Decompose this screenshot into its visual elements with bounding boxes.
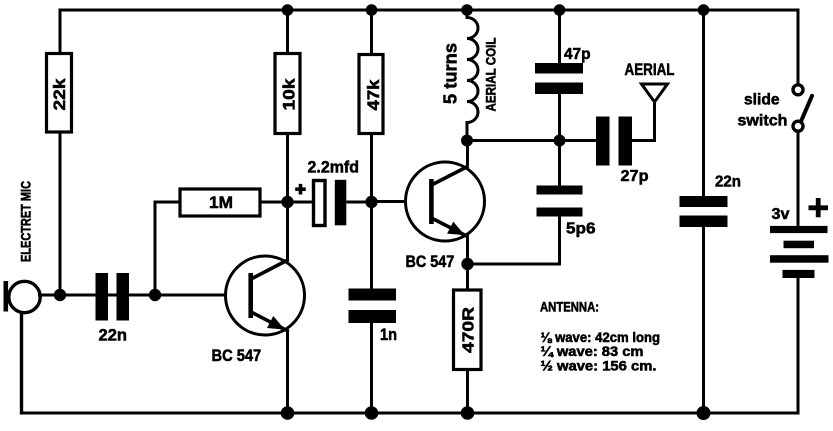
node dot top rail 22n branch [698,4,710,16]
node dot ground rail 22n [697,406,711,420]
wire node to 2.2mfd left plate [288,201,314,204]
wire Q2 collector up to coil [466,141,469,167]
wire 47p bottom to node [558,94,561,141]
capacitor 22n (mic coupling) [96,273,130,345]
svg-text:ANTENNA:: ANTENNA: [540,300,599,315]
wire 27p to antenna [632,102,655,141]
node dot coil bottom [461,135,473,147]
wire bottom ground rail [20,412,800,415]
wire rail to 47p [558,10,561,63]
electret mic [4,181,41,415]
capacitor 5p6 [537,186,596,238]
svg-text:½ wave: 156 cm.: ½ wave: 156 cm. [541,359,657,374]
node dot top rail 10k [282,4,294,16]
svg-text:10k: 10k [280,78,299,111]
wire 47k bottom to node [370,134,373,203]
resistor 10k [275,54,300,134]
node dot base/1M junction [149,289,161,301]
svg-text:⅛ wave: 42cm long: ⅛ wave: 42cm long [541,330,661,345]
wire coil bottom to 27p [467,139,596,142]
wire 22n to ground rail [702,227,705,413]
svg-text:47k: 47k [364,79,383,111]
wire switch to battery [797,131,800,226]
wire node down to Q1 collector [286,202,289,260]
wire mic output line [38,294,250,297]
svg-text:AERIAL COIL: AERIAL COIL [483,37,499,111]
wire 10k bottom to node [286,134,289,203]
node dot top rail 47p [554,4,566,16]
capacitor 47p [535,46,591,94]
wire Q2 emitter down to node [466,237,469,264]
wire node to Q2 base [372,200,431,203]
svg-text:1n: 1n [380,325,397,344]
wire 1M left branch [155,202,180,297]
svg-text:27p: 27p [621,168,649,185]
svg-text:switch: switch [738,113,788,130]
resistor 470R [454,290,482,370]
capacitor 1n [349,289,398,345]
text antenna notes [540,300,660,374]
capacitor 22n (supply decoupling) [680,174,742,228]
wire 470R to ground rail [466,370,469,414]
svg-text:5p6: 5p6 [566,221,596,238]
node dot top rail 47k [366,4,378,16]
capacitor 27p [596,117,649,186]
node dot 47p/5p6 junction [554,135,566,147]
svg-text:BC 547: BC 547 [406,252,455,271]
wire rail to 47k [370,10,373,55]
node dot top rail coil [461,4,473,16]
wire battery to ground rail [797,278,800,415]
node dot ground rail Q1 emitter [281,406,295,420]
wire 1M right to node [260,201,288,204]
wire emitter node down to 470R [466,264,469,290]
wire Q1 emitter to ground rail [286,330,289,413]
svg-text:2.2mfd: 2.2mfd [308,159,360,177]
wire 22k bottom to mic node [59,132,62,295]
capacitor 2.2mfd electrolytic [295,159,359,226]
node dot 10k/1M/2.2mfd junction [281,196,293,208]
wire rail to 10k [286,10,289,54]
wire rail corner down to switch [797,9,800,86]
slide switch [738,85,813,131]
wire rail down to 22n [702,10,705,196]
svg-text:1M: 1M [209,193,233,212]
wire 1n to ground rail [370,323,373,413]
svg-text:470R: 470R [461,306,478,353]
svg-text:22k: 22k [50,78,69,111]
svg-text:47p: 47p [564,46,591,63]
resistor 47k [359,55,383,134]
wire top supply rail [60,9,798,12]
wire 5p6 bottom to Q2 emitter node [468,217,560,265]
wire 2.2mfd right plate to 47k node [346,201,371,204]
svg-text:22n: 22n [99,326,128,345]
resistor 1M [180,189,260,216]
wire node down to 1n [370,202,373,289]
svg-text:¼ wave: 83 cm: ¼ wave: 83 cm [541,344,644,359]
resistor 22k [47,54,72,133]
svg-text:22n: 22n [715,174,741,191]
node dot Q2 emitter / 470R junction [461,258,473,270]
svg-text:5 turns: 5 turns [441,43,461,104]
node dot ground rail 1n [365,406,379,420]
battery 3v [770,198,829,278]
wire node to 5p6 [558,141,561,186]
wire left drop from rail to 22k [59,9,62,54]
node dot 47k/2.2mfd junction [365,196,377,208]
antenna symbol AERIAL [625,60,675,102]
node dot ground rail 470R [461,406,475,420]
transistor Q2 BC 547 [406,162,485,271]
transistor Q1 BC 547 [212,256,305,365]
node dot mic/22k junction [54,289,66,301]
svg-text:ELECTRET MIC: ELECTRET MIC [18,181,34,262]
svg-text:slide: slide [744,92,780,109]
svg-text:AERIAL: AERIAL [625,60,675,79]
inductor aerial coil 5 turns [441,10,499,141]
svg-text:BC 547: BC 547 [212,346,262,365]
svg-text:3v: 3v [772,206,790,223]
